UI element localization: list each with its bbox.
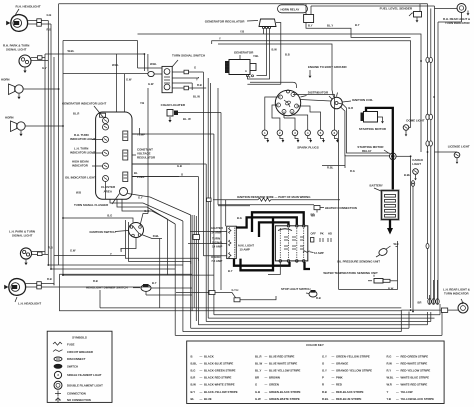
engine box right bbox=[339, 130, 398, 289]
svg-text:—: — bbox=[265, 376, 268, 380]
svg-text:—: — bbox=[396, 376, 399, 380]
svg-text:W.R: W.R bbox=[387, 383, 392, 387]
svg-text:GREEN: GREEN bbox=[269, 383, 279, 387]
heater connection bbox=[314, 206, 320, 210]
svg-text:—: — bbox=[396, 383, 399, 387]
svg-text:YELLOW: YELLOW bbox=[401, 390, 413, 394]
svg-text:GENERATOR: GENERATOR bbox=[234, 51, 254, 55]
spark plugs 1-6 bbox=[262, 130, 268, 136]
svg-text:—: — bbox=[200, 376, 203, 380]
svg-text:O.Y: O.Y bbox=[322, 369, 327, 373]
wire: left lamp trunk bbox=[44, 54, 46, 254]
color key box bbox=[187, 341, 444, 404]
svg-text:G.B: G.B bbox=[255, 390, 260, 394]
svg-text:O: O bbox=[181, 173, 183, 177]
wire: top main harness bbox=[59, 3, 428, 5]
wire pair to heater connection bbox=[218, 204, 314, 206]
svg-text:—: — bbox=[265, 369, 268, 373]
svg-text:LIGHT: LIGHT bbox=[412, 162, 421, 166]
wire: mid vertical bundle bbox=[159, 239, 161, 308]
svg-text:R.B: R.B bbox=[47, 28, 52, 32]
svg-text:PK: PK bbox=[320, 232, 324, 236]
svg-text:—: — bbox=[332, 390, 335, 394]
svg-text:G.B: G.B bbox=[177, 164, 182, 168]
ignition coil bbox=[331, 97, 343, 109]
wire: bottom bundle line7 bbox=[100, 307, 401, 309]
svg-text:FUEL LEVEL SENDER: FUEL LEVEL SENDER bbox=[380, 7, 413, 11]
svg-text:ORANGE-YELLOW STRIPE: ORANGE-YELLOW STRIPE bbox=[336, 369, 372, 373]
svg-text:—: — bbox=[332, 397, 335, 401]
symbol disconnect bbox=[54, 357, 62, 361]
wire: box4 top bbox=[218, 44, 332, 90]
svg-text:REGULATOR: REGULATOR bbox=[137, 156, 156, 160]
ts switch left connector bbox=[148, 71, 154, 76]
resistor wire bbox=[213, 199, 258, 201]
constant voltage regulator bbox=[123, 150, 128, 160]
R.H. park light bbox=[19, 55, 31, 67]
svg-text:Y.B: Y.B bbox=[387, 397, 391, 401]
svg-text:BL.Y: BL.Y bbox=[327, 24, 333, 28]
svg-text:—: — bbox=[396, 390, 399, 394]
symbol circuit breaker bbox=[53, 350, 63, 352]
svg-text:W.BL: W.BL bbox=[68, 49, 75, 53]
svg-text:R.B: R.B bbox=[48, 246, 53, 250]
svg-text:BLUE-RED STRIPE: BLUE-RED STRIPE bbox=[269, 354, 294, 358]
svg-text:TURN INDICATOR: TURN INDICATOR bbox=[445, 21, 471, 25]
svg-text:W.BL: W.BL bbox=[387, 376, 394, 380]
svg-text:R.Y: R.Y bbox=[387, 369, 392, 373]
svg-text:—: — bbox=[265, 354, 268, 358]
svg-text:W.BL: W.BL bbox=[150, 62, 157, 66]
svg-text:YELLOW-BLACK STRIPE: YELLOW-BLACK STRIPE bbox=[401, 397, 435, 401]
lh headlight connectors bbox=[26, 283, 54, 285]
svg-text:B.G: B.G bbox=[144, 209, 149, 213]
conn rings top right trunk bbox=[426, 57, 429, 62]
svg-text:—: — bbox=[396, 354, 399, 358]
svg-text:R.B: R.B bbox=[316, 296, 321, 300]
svg-text:G.Y-H: G.Y-H bbox=[232, 289, 239, 292]
turn signal flasher bbox=[120, 188, 128, 196]
svg-text:TEMP: TEMP bbox=[137, 133, 145, 137]
wire: disconnects near stop light bbox=[176, 292, 209, 294]
regulator wires bbox=[263, 29, 265, 34]
svg-text:R.H. HEADLIGHT: R.H. HEADLIGHT bbox=[16, 5, 41, 9]
svg-text:BL.W: BL.W bbox=[255, 361, 263, 365]
svg-text:AREA: AREA bbox=[104, 190, 113, 194]
conn rings bottom right bbox=[428, 299, 431, 305]
svg-text:BL.R: BL.R bbox=[255, 354, 262, 358]
wire: tight center bundle bbox=[191, 215, 193, 311]
svg-text:SINGLE FILAMENT LIGHT: SINGLE FILAMENT LIGHT bbox=[67, 373, 102, 377]
svg-text:R.B: R.B bbox=[197, 83, 202, 87]
fuel gauge bbox=[123, 172, 128, 182]
svg-text:G.B: G.B bbox=[47, 13, 52, 17]
svg-text:SYMBOLS: SYMBOLS bbox=[72, 336, 87, 340]
svg-text:Y: Y bbox=[120, 248, 122, 252]
svg-text:INDICATOR: INDICATOR bbox=[72, 164, 89, 168]
svg-text:BL: BL bbox=[134, 171, 138, 175]
svg-text:B.G: B.G bbox=[191, 369, 196, 373]
junction bends bottom right bbox=[430, 299, 438, 304]
svg-text:BL.R: BL.R bbox=[73, 112, 79, 116]
svg-text:HD: HD bbox=[328, 232, 332, 236]
svg-text:BLACK-YELLOW STRIPE: BLACK-YELLOW STRIPE bbox=[204, 390, 238, 394]
conn rings right trunk mid bbox=[426, 114, 429, 120]
symbol no connection bbox=[55, 397, 61, 403]
symbol single filament light bbox=[54, 371, 61, 378]
svg-text:WHITE-RED STRIPE: WHITE-RED STRIPE bbox=[401, 383, 428, 387]
svg-text:R.BL: R.BL bbox=[153, 234, 160, 238]
svg-text:BLACK: BLACK bbox=[204, 354, 214, 358]
svg-text:RED-YELLOW STRIPE: RED-YELLOW STRIPE bbox=[401, 369, 431, 373]
svg-text:—: — bbox=[200, 369, 203, 373]
svg-text:RELAY: RELAY bbox=[362, 149, 372, 153]
svg-text:B.B: B.B bbox=[285, 53, 290, 57]
L.H. headlight bbox=[9, 279, 26, 296]
svg-text:B.R: B.R bbox=[191, 376, 196, 380]
svg-text:G.W: G.W bbox=[126, 78, 132, 82]
svg-text:B.W: B.W bbox=[272, 48, 278, 52]
svg-text:—: — bbox=[332, 369, 335, 373]
svg-text:HEATER CONNECTION: HEATER CONNECTION bbox=[325, 206, 357, 210]
svg-text:Y: Y bbox=[196, 78, 198, 82]
svg-text:HORN: HORN bbox=[1, 78, 10, 82]
svg-text:B.R: B.R bbox=[348, 106, 353, 110]
svg-text:R.BL: R.BL bbox=[322, 397, 329, 401]
svg-text:12 AMP: 12 AMP bbox=[314, 251, 324, 255]
svg-text:BR: BR bbox=[311, 213, 315, 217]
svg-text:W.BL: W.BL bbox=[112, 63, 119, 67]
svg-text:BLUE: BLUE bbox=[204, 397, 212, 401]
svg-text:SIGNAL LIGHT: SIGNAL LIGHT bbox=[6, 48, 27, 52]
svg-text:LICENSE LIGHT: LICENSE LIGHT bbox=[448, 145, 470, 149]
svg-text:14 AMP: 14 AMP bbox=[212, 245, 222, 249]
svg-text:R.G: R.G bbox=[350, 169, 355, 173]
wire: rear lamp feeders bbox=[434, 6, 436, 299]
svg-text:BLACK RED STRIPE: BLACK RED STRIPE bbox=[204, 376, 231, 380]
svg-text:SIGNAL LIGHT: SIGNAL LIGHT bbox=[12, 234, 33, 238]
svg-text:HORN: HORN bbox=[5, 116, 14, 120]
svg-text:HEADLIGHT DIMMER SWITCH: HEADLIGHT DIMMER SWITCH bbox=[86, 286, 128, 290]
svg-text:W.B: W.B bbox=[394, 242, 399, 246]
svg-text:Y.B: Y.B bbox=[240, 30, 244, 34]
junction dots bbox=[58, 88, 60, 90]
rh headlight connectors bbox=[28, 20, 49, 22]
thick harness wires bbox=[236, 217, 296, 227]
svg-text:CIGAR LIGHTER: CIGAR LIGHTER bbox=[161, 103, 186, 107]
wire: horn relay feed right bbox=[306, 23, 411, 38]
svg-text:RED-BLACK STRIPE: RED-BLACK STRIPE bbox=[336, 390, 364, 394]
svg-text:ORANGE: ORANGE bbox=[336, 361, 348, 365]
svg-text:W.B: W.B bbox=[76, 191, 81, 195]
svg-text:R.G: R.G bbox=[387, 354, 392, 358]
svg-text:G.W: G.W bbox=[255, 397, 261, 401]
wire: box2 top bbox=[138, 34, 422, 152]
svg-text:BL: BL bbox=[191, 397, 195, 401]
svg-text:ENGINE TO BODY GROUND: ENGINE TO BODY GROUND bbox=[308, 65, 347, 69]
wire: right mid verticals bbox=[410, 160, 412, 308]
svg-text:Y: Y bbox=[219, 37, 221, 41]
wire: dimmer loop box bbox=[60, 273, 193, 275]
svg-text:RED: RED bbox=[336, 383, 342, 387]
svg-text:G.Y: G.Y bbox=[42, 66, 47, 70]
svg-text:—: — bbox=[265, 397, 268, 401]
svg-text:—: — bbox=[200, 390, 203, 394]
svg-text:L.H. HEADLIGHT: L.H. HEADLIGHT bbox=[18, 302, 41, 306]
svg-text:A: A bbox=[245, 70, 247, 73]
svg-text:OIL INDICATOR LIGHT: OIL INDICATOR LIGHT bbox=[65, 176, 96, 180]
svg-text:—: — bbox=[200, 383, 203, 387]
svg-text:INDICATOR LIGHT: INDICATOR LIGHT bbox=[70, 151, 95, 155]
svg-text:—: — bbox=[200, 397, 203, 401]
svg-text:B.BL: B.BL bbox=[404, 173, 411, 177]
svg-text:14 AMP: 14 AMP bbox=[211, 230, 221, 234]
svg-text:OIL PRESSURE SENDING UNIT: OIL PRESSURE SENDING UNIT bbox=[337, 260, 380, 264]
svg-text:BLUE-YELLOW STRIPE: BLUE-YELLOW STRIPE bbox=[269, 369, 301, 373]
svg-text:STARTING MOTOR: STARTING MOTOR bbox=[359, 127, 387, 131]
svg-text:BATTERY: BATTERY bbox=[370, 184, 383, 188]
svg-text:B.BL: B.BL bbox=[191, 361, 198, 365]
svg-text:—: — bbox=[332, 354, 335, 358]
symbol switch bbox=[54, 364, 62, 368]
wire: cluster to bundle staircase bbox=[132, 133, 214, 135]
svg-text:DOME LIGHT: DOME LIGHT bbox=[406, 119, 424, 123]
ts switch right wires bbox=[172, 71, 184, 73]
svg-text:IGNITION RESISTOR WIRE — PART: IGNITION RESISTOR WIRE — PART OF MAIN WI… bbox=[237, 195, 311, 199]
svg-text:BR: BR bbox=[255, 376, 259, 380]
svg-text:—: — bbox=[265, 361, 268, 365]
horn relay bbox=[278, 5, 308, 13]
svg-text:COLOR KEY: COLOR KEY bbox=[306, 343, 324, 347]
spark plug wires bbox=[265, 97, 281, 130]
svg-text:R.BL: R.BL bbox=[327, 166, 334, 170]
svg-text:B.W: B.W bbox=[388, 287, 394, 291]
svg-text:7.5 AMP: 7.5 AMP bbox=[211, 259, 222, 263]
wire: left-to-center horizontals bbox=[54, 255, 125, 257]
svg-text:R.B: R.B bbox=[47, 277, 52, 281]
wire: ignition loop horizontals bbox=[125, 220, 198, 261]
svg-text:STOP LIGHT SWITCH: STOP LIGHT SWITCH bbox=[281, 287, 310, 291]
svg-text:BL.W: BL.W bbox=[193, 95, 200, 99]
symbols legend box bbox=[47, 331, 112, 402]
svg-text:B.G: B.G bbox=[107, 214, 112, 218]
svg-text:DISCONNECT: DISCONNECT bbox=[67, 357, 86, 361]
starting motor bbox=[364, 112, 378, 123]
svg-text:FUSE: FUSE bbox=[67, 342, 75, 346]
svg-text:—: — bbox=[332, 376, 335, 380]
svg-text:—: — bbox=[396, 361, 399, 365]
wires cluster right side bbox=[132, 133, 140, 135]
coil wires down bbox=[340, 107, 390, 156]
temp gauge bbox=[123, 131, 128, 141]
svg-text:TURN INDICATOR: TURN INDICATOR bbox=[444, 292, 470, 296]
horn 1 bbox=[15, 85, 23, 93]
svg-text:O: O bbox=[433, 95, 435, 99]
svg-text:—: — bbox=[200, 354, 203, 358]
svg-text:B.W: B.W bbox=[191, 383, 197, 387]
svg-text:GENERATOR REGULATOR: GENERATOR REGULATOR bbox=[205, 19, 245, 23]
svg-text:RED-BLUE STRIPE: RED-BLUE STRIPE bbox=[336, 397, 361, 401]
svg-text:B.Y: B.Y bbox=[228, 269, 233, 273]
svg-text:BLACK-BLUE STRIPE: BLACK-BLUE STRIPE bbox=[204, 361, 233, 365]
svg-text:Y: Y bbox=[387, 390, 389, 394]
svg-text:HORN RELAY: HORN RELAY bbox=[281, 8, 300, 12]
svg-text:—: — bbox=[200, 361, 203, 365]
svg-text:G.W: G.W bbox=[148, 82, 154, 86]
svg-text:B.Y: B.Y bbox=[152, 281, 157, 285]
svg-text:GREEN-WHITE STRIPE: GREEN-WHITE STRIPE bbox=[269, 397, 300, 401]
svg-text:PINK: PINK bbox=[336, 376, 343, 380]
svg-text:SPARK PLUGS: SPARK PLUGS bbox=[297, 146, 318, 150]
svg-text:INDICATOR LIGHT: INDICATOR LIGHT bbox=[70, 137, 95, 141]
svg-text:TURN SIGNAL SWITCH: TURN SIGNAL SWITCH bbox=[172, 54, 205, 58]
svg-text:P: P bbox=[322, 376, 324, 380]
svg-text:O: O bbox=[420, 59, 422, 63]
svg-text:—: — bbox=[265, 383, 268, 387]
svg-text:—: — bbox=[332, 383, 335, 387]
svg-text:Y: Y bbox=[110, 252, 112, 256]
svg-text:—: — bbox=[396, 397, 399, 401]
fuse panel bbox=[227, 226, 237, 258]
svg-text:R.B: R.B bbox=[93, 279, 98, 283]
svg-text:FUEL: FUEL bbox=[137, 175, 145, 179]
wire: right main verticals from top bbox=[427, 4, 429, 299]
svg-text:GENERATOR INDICATOR LIGHT: GENERATOR INDICATOR LIGHT bbox=[62, 102, 107, 106]
svg-text:G.W: G.W bbox=[70, 249, 76, 253]
svg-text:DOUBLE FILAMENT LIGHT: DOUBLE FILAMENT LIGHT bbox=[67, 384, 103, 388]
svg-text:—: — bbox=[332, 361, 335, 365]
svg-text:B.Y: B.Y bbox=[308, 24, 313, 28]
svg-text:B: B bbox=[191, 354, 193, 358]
svg-text:15 AMP: 15 AMP bbox=[240, 248, 250, 252]
L.H. park light bbox=[20, 248, 31, 259]
svg-text:—: — bbox=[265, 390, 268, 394]
svg-text:Y.BL: Y.BL bbox=[253, 54, 259, 58]
svg-text:—: — bbox=[396, 369, 399, 373]
svg-text:BR: BR bbox=[418, 300, 422, 304]
symbol connection bbox=[55, 391, 61, 397]
svg-text:SWITCH: SWITCH bbox=[67, 365, 78, 369]
wire: box3 top bbox=[212, 41, 411, 128]
horn 2 bbox=[17, 122, 25, 130]
svg-text:G.Y: G.Y bbox=[322, 354, 327, 358]
svg-text:CLUSTER: CLUSTER bbox=[101, 185, 116, 189]
svg-text:B.G: B.G bbox=[237, 216, 242, 220]
svg-text:GREEN-YELLOW STRIPE: GREEN-YELLOW STRIPE bbox=[336, 354, 370, 358]
lighting switch box bbox=[275, 226, 307, 261]
svg-text:OFF: OFF bbox=[311, 232, 317, 236]
wire: left upper horizontals bbox=[63, 40, 138, 42]
svg-text:IGNITION SWITCH: IGNITION SWITCH bbox=[90, 230, 116, 234]
svg-text:Y.B: Y.B bbox=[140, 101, 144, 105]
thick cable motor to relay to battery bbox=[366, 108, 393, 191]
motor ground bbox=[378, 117, 383, 119]
svg-text:BLACK-WHITE STRIPE: BLACK-WHITE STRIPE bbox=[204, 383, 235, 387]
R.H. headlight bbox=[11, 15, 28, 32]
svg-text:R: R bbox=[322, 383, 324, 387]
svg-text:BLACK-GREEN STRIPE: BLACK-GREEN STRIPE bbox=[204, 369, 236, 373]
svg-text:G.Y: G.Y bbox=[138, 195, 143, 199]
disconnect plug on bundle bbox=[193, 235, 200, 240]
wire: bottom bundle horizontals bbox=[214, 314, 440, 316]
12 amp breaker bbox=[303, 251, 310, 253]
svg-text:RED-WHITE STRIPE: RED-WHITE STRIPE bbox=[401, 361, 428, 365]
svg-text:G: G bbox=[255, 383, 257, 387]
svg-text:IGNITION COIL: IGNITION COIL bbox=[352, 98, 374, 102]
svg-text:WATER TEMPERATURE SENDING UNIT: WATER TEMPERATURE SENDING UNIT bbox=[323, 271, 378, 275]
svg-text:WHITE-BLUE STRIPE: WHITE-BLUE STRIPE bbox=[401, 376, 430, 380]
svg-text:R.W: R.W bbox=[387, 361, 393, 365]
svg-text:R.B: R.B bbox=[322, 390, 327, 394]
svg-text:BLUE WHITE STRIPE: BLUE WHITE STRIPE bbox=[269, 361, 297, 365]
svg-text:DISTRIBUTOR: DISTRIBUTOR bbox=[308, 91, 329, 95]
svg-text:BL.Y: BL.Y bbox=[255, 369, 262, 373]
svg-text:CIRCUIT BREAKER: CIRCUIT BREAKER bbox=[67, 350, 93, 354]
svg-text:CONNECTION: CONNECTION bbox=[67, 392, 86, 396]
svg-text:BROWN: BROWN bbox=[269, 376, 280, 380]
svg-text:GREEN-BLACK STRIPE: GREEN-BLACK STRIPE bbox=[269, 390, 301, 394]
cluster area box bbox=[96, 112, 132, 199]
svg-text:RED-GREEN STRIPE: RED-GREEN STRIPE bbox=[401, 354, 429, 358]
svg-text:B.Y: B.Y bbox=[355, 23, 360, 27]
battery ground cable thick arrow bbox=[389, 220, 391, 229]
svg-text:B.Y: B.Y bbox=[191, 390, 196, 394]
symbol double filament light bbox=[54, 381, 62, 389]
ignition switch wires bbox=[63, 218, 133, 223]
svg-text:TURN SIGNAL FLASHER: TURN SIGNAL FLASHER bbox=[74, 203, 109, 207]
wire: park to turn switch bbox=[45, 54, 144, 71]
symbol fuse bbox=[53, 342, 62, 345]
wire: left main vertical bbox=[58, 4, 60, 265]
engine block outline bbox=[250, 82, 297, 88]
svg-text:BL. W: BL. W bbox=[183, 117, 191, 121]
svg-text:NO CONNECTION: NO CONNECTION bbox=[67, 398, 91, 402]
svg-text:G: G bbox=[194, 66, 196, 70]
wire: second left vertical bbox=[62, 41, 64, 276]
